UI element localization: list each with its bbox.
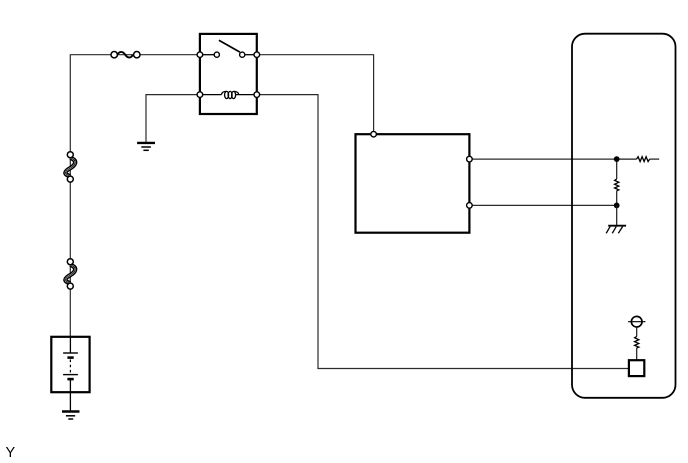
- wire ECU box output 2 to junction B: [469, 204, 616, 206]
- svg-text:Y: Y: [6, 445, 16, 461]
- resistor (horizontal, top right): [617, 157, 660, 162]
- relay terminal pins: [197, 52, 259, 97]
- ground (battery): [62, 412, 80, 420]
- right panel (rounded rectangle): [572, 34, 676, 398]
- relay box: [200, 34, 257, 114]
- wire junction B to chassis ground: [616, 205, 618, 225]
- node Y label: [6, 445, 16, 461]
- relay coil: [200, 91, 257, 98]
- wire relay switch output to ECU box top: [257, 55, 374, 135]
- wire ECU box output 1 to junction A: [469, 158, 616, 160]
- fusible link 1: [65, 152, 75, 182]
- wire relay coil left terminal to ground: [146, 95, 200, 143]
- wire relay coil right terminal to square connector (long run): [257, 95, 629, 369]
- junction B: [614, 203, 620, 209]
- ground (relay coil): [137, 143, 155, 150]
- battery: [51, 337, 89, 412]
- fuse: [111, 52, 140, 58]
- resistor (vertical, above square connector): [635, 327, 639, 360]
- fusible link 2: [65, 259, 75, 289]
- wire battery to fuse (vertical run x=70 then top run y=54.7): [70, 55, 200, 337]
- bulb / sensor symbol (circle with bar): [628, 316, 645, 327]
- ECU box: [356, 131, 473, 232]
- junction A: [614, 156, 620, 162]
- chassis ground (hatched): [606, 226, 626, 234]
- resistor (vertical, between junctions): [615, 159, 619, 205]
- relay switch contact: [200, 40, 257, 57]
- square connector box: [629, 360, 644, 376]
